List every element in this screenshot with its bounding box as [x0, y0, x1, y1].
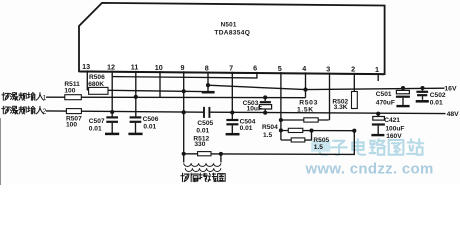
- junction dot pin11/input-1 wire: [134, 95, 138, 99]
- resistor R503 body: [304, 118, 318, 122]
- svg-text:7: 7: [229, 64, 233, 73]
- pin 5 stub wire: [280, 72, 282, 140]
- svg-text:C506: C506: [143, 116, 159, 123]
- pin 10 number: [155, 63, 163, 72]
- junction dot pin8/16V rail: [206, 83, 210, 87]
- junction dot C503 bottom / W2: [263, 111, 267, 115]
- pin 9 stub wire: [183, 71, 185, 154]
- pin 12 stub wire: [111, 71, 113, 118]
- junction dot pin2/R504 wire: [352, 129, 356, 133]
- svg-text:3: 3: [326, 64, 330, 73]
- svg-text:C421: C421: [384, 117, 400, 124]
- capacitor C507 label: [89, 118, 105, 125]
- ground bar below C507: [105, 133, 119, 136]
- resistor R503 label: [299, 99, 318, 106]
- pin 2 stub wire: [353, 73, 355, 92]
- junction dot coil left node: [182, 152, 186, 156]
- svg-text:C501: C501: [376, 91, 392, 98]
- svg-text:330: 330: [194, 141, 205, 148]
- resistor R506 value 680K: [88, 81, 104, 88]
- resistor R504 body: [288, 128, 303, 132]
- pin 13 stub wire: [86, 70, 88, 90]
- capacitor C507 plates: [106, 117, 118, 133]
- pin 1 number: [375, 65, 379, 74]
- resistor R507 body: [66, 109, 81, 114]
- svg-text:1: 1: [375, 65, 379, 74]
- resistor R512 body: [198, 152, 211, 156]
- junction dot pin9/W2: [182, 110, 186, 114]
- svg-text:100uF: 100uF: [385, 125, 404, 132]
- svg-text:5: 5: [278, 64, 282, 73]
- pin 4 stub wire: [305, 72, 307, 97]
- capacitor C504 value: [240, 125, 253, 132]
- pin 8 number: [205, 63, 209, 72]
- wire coil node to pin 2 (bottom): [221, 131, 354, 155]
- wire R503: [281, 119, 329, 121]
- net label 16V: [444, 86, 457, 93]
- svg-text:1.5K: 1.5K: [297, 106, 314, 113]
- junction dot C502/16V rail: [420, 86, 424, 90]
- capacitor C506 label: [143, 116, 159, 123]
- watermark text line 2 (site url): [305, 161, 434, 178]
- capacitor C501 body: [396, 88, 410, 105]
- svg-text:R506: R506: [89, 74, 105, 81]
- capacitor C503 value: [247, 105, 262, 112]
- svg-text:100: 100: [64, 88, 75, 95]
- resistor R511 label: [64, 81, 80, 88]
- scan artifact left edge: [0, 118, 2, 185]
- svg-text:0.01: 0.01: [196, 128, 209, 135]
- svg-text:1: 1: [43, 95, 47, 102]
- pin 6 number: [253, 64, 257, 73]
- svg-text:R504: R504: [262, 124, 278, 131]
- svg-text:680K: 680K: [88, 81, 104, 88]
- pin 11 stub wire: [135, 71, 137, 118]
- capacitor C504 label: [240, 118, 256, 125]
- pin 8 stub wire: [207, 71, 209, 91]
- svg-text:11: 11: [131, 63, 139, 72]
- capacitor C505 plates: [204, 107, 209, 118]
- capacitor C502 body: [416, 88, 428, 100]
- svg-text:470uF: 470uF: [376, 99, 395, 106]
- capacitor C421 voltage: [386, 133, 402, 140]
- svg-text:2: 2: [351, 65, 355, 74]
- svg-text:10: 10: [155, 63, 163, 72]
- pin 5 number: [278, 64, 282, 73]
- resistor R511 value 100: [64, 88, 75, 95]
- pin 3 stub wire: [329, 73, 331, 121]
- svg-text:0.01: 0.01: [430, 99, 443, 106]
- capacitor C504 plates: [226, 120, 238, 133]
- svg-text:R503: R503: [299, 99, 318, 106]
- svg-text:12: 12: [107, 62, 115, 71]
- svg-text:2: 2: [43, 109, 47, 116]
- svg-text:100: 100: [66, 121, 77, 128]
- resistor R512 label: [193, 136, 209, 143]
- junction dot R504/R505 node: [309, 129, 313, 133]
- IC label N501: [221, 22, 237, 29]
- junction dot pin4/16V rail: [303, 88, 307, 92]
- svg-text:0.01: 0.01: [89, 125, 102, 132]
- capacitor C501 value: [376, 99, 395, 106]
- ground bar below C504: [226, 133, 240, 136]
- svg-text:13: 13: [82, 62, 90, 71]
- node label input 1 (CJK): [2, 93, 47, 102]
- ground bar below C502: [416, 100, 429, 103]
- pin 4 number: [302, 64, 306, 73]
- svg-text:C505: C505: [197, 120, 213, 127]
- op-amp/IC U1 N501 TDA8354Q outline: [79, 3, 385, 75]
- svg-text:1.5: 1.5: [314, 144, 323, 151]
- wire 48V rail right of C505: [210, 112, 445, 113]
- resistor R504 label: [262, 124, 278, 131]
- pin 10 stub wire: [159, 71, 161, 97]
- junction dot C503 top / input-1 wire: [263, 95, 267, 99]
- resistor R505 label: [313, 137, 329, 144]
- junction dot pin9/R506 wire: [182, 89, 186, 93]
- svg-text:C507: C507: [89, 118, 105, 125]
- resistor R504 value: [263, 132, 272, 139]
- capacitor C503 label: [243, 100, 259, 107]
- resistor R511 body: [65, 95, 82, 100]
- svg-text:www. cndzz. com: www. cndzz. com: [305, 161, 434, 178]
- svg-text:0.01: 0.01: [143, 123, 156, 130]
- ground bar below C506: [128, 133, 142, 136]
- resistor R503 value: [297, 106, 314, 113]
- resistor R506 body: [89, 87, 108, 94]
- pin 2 number: [351, 65, 355, 74]
- resistor R502 label: [332, 98, 348, 105]
- pin 7 number: [229, 64, 233, 73]
- coil label (CJK): [181, 173, 225, 181]
- junction dot C501/16V rail: [401, 86, 405, 90]
- capacitor C421 value: [385, 125, 404, 132]
- inductor L - vertical deflection coil: [184, 154, 221, 172]
- svg-text:4: 4: [302, 64, 306, 73]
- wire R512: [184, 153, 221, 155]
- node label input 2 (CJK): [2, 106, 47, 115]
- svg-text:10uF: 10uF: [247, 105, 262, 112]
- resistor R505 value: [314, 144, 323, 151]
- wire input-2 / 48V rail: [46, 111, 203, 112]
- junction dot pin5/R504 wire: [279, 128, 283, 132]
- svg-text:48V: 48V: [447, 111, 460, 118]
- pin 13 number: [82, 62, 90, 71]
- svg-text:1.5: 1.5: [263, 132, 272, 139]
- resistor R502 body (vertical): [352, 92, 358, 109]
- pin 7 stub wire: [231, 72, 233, 120]
- ground bar below C421: [371, 134, 384, 136]
- resistor R507 label: [66, 115, 82, 122]
- wire 16V rail from pin 8: [208, 85, 445, 89]
- watermark text line 1 (site name): [314, 139, 423, 155]
- svg-text:9: 9: [181, 63, 185, 72]
- svg-text:16V: 16V: [444, 86, 457, 93]
- junction dot C421/48V rail: [376, 112, 380, 116]
- svg-text:8: 8: [205, 63, 209, 72]
- wire R504: [281, 130, 354, 132]
- svg-text:0.01: 0.01: [240, 125, 253, 132]
- svg-text:160V: 160V: [386, 133, 402, 140]
- svg-text:3.3K: 3.3K: [334, 104, 348, 111]
- resistor R502 value: [334, 104, 348, 111]
- capacitor C421 label: [384, 117, 400, 124]
- capacitor C506 value: [143, 123, 156, 130]
- wire pin13/R506 net: [87, 90, 202, 92]
- net label 48V: [447, 111, 460, 118]
- wire input-1 net (R511 to pin11/pin10/C503/pin4): [46, 96, 306, 99]
- capacitor C505 label: [197, 120, 213, 127]
- resistor R512 value: [194, 141, 205, 148]
- junction dot pin12/W2: [110, 110, 114, 114]
- ground bar at pin 8: [202, 91, 215, 94]
- capacitor C505 value: [196, 128, 209, 135]
- wire R505: [281, 131, 312, 141]
- junction dot coil right node: [219, 152, 223, 156]
- capacitor C506 plates: [130, 117, 142, 133]
- resistor R505 body: [291, 138, 305, 142]
- pin 9 number: [181, 63, 185, 72]
- svg-text:N501: N501: [221, 22, 237, 29]
- capacitor C507 value: [89, 125, 102, 132]
- pin 11 number: [131, 63, 139, 72]
- wire bus pin12 to pin6: [112, 72, 257, 78]
- junction dot pin7/W2: [230, 110, 234, 114]
- capacitor C502 label: [430, 92, 446, 99]
- resistor R507 value 100: [66, 121, 77, 128]
- capacitor C503 body: [259, 97, 271, 113]
- pin 3 number: [326, 64, 330, 73]
- pin 1 stub wire: [377, 73, 379, 81]
- IC label TDA8354Q: [214, 29, 250, 36]
- svg-text:C502: C502: [430, 92, 446, 99]
- svg-text:TDA8354Q: TDA8354Q: [214, 29, 250, 36]
- capacitor C502 value: [430, 99, 443, 106]
- watermark blob behind R505 value: [311, 141, 330, 152]
- resistor R506 label: [89, 74, 105, 81]
- junction dot pin5/R503 wire: [279, 118, 283, 122]
- ground bar below C501: [396, 105, 409, 107]
- svg-text:6: 6: [253, 64, 257, 73]
- capacitor C501 label: [376, 91, 392, 98]
- pin 12 number: [107, 62, 115, 71]
- capacitor C421 body: [372, 114, 385, 134]
